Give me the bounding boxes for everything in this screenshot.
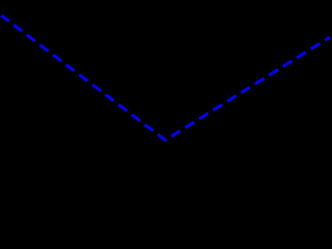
dashed blue V-shaped curve (absolute-value style plot line) [2, 16, 330, 141]
